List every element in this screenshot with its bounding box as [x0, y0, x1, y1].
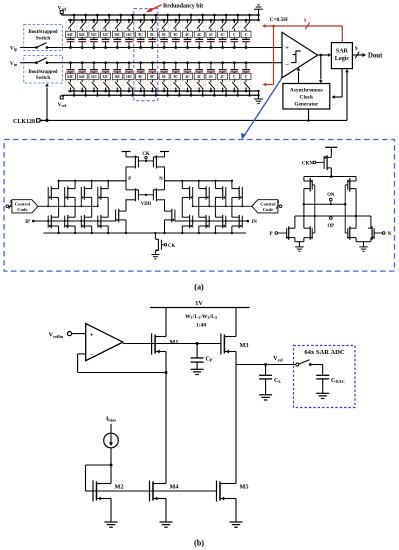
node OP: [295, 215, 371, 229]
capacitor CDAC: [316, 365, 345, 399]
capacitor C top cell 15 with switch: [229, 14, 239, 49]
wire preamp right top rail: [165, 180, 232, 182]
svg-text:IP: IP: [25, 220, 30, 225]
SAR Logic box U2: [331, 43, 352, 69]
control code tag left: [6, 199, 38, 213]
capacitor 8C bottom cell 7 with switch: [136, 61, 146, 96]
svg-text:2C: 2C: [220, 33, 225, 37]
wire M2 diode connection: [86, 465, 112, 491]
64x SAR ADC dashed box: [294, 346, 356, 408]
svg-text:C: C: [245, 75, 248, 79]
control code tag right: [252, 199, 282, 213]
wire bottom inner rail: [68, 90, 259, 92]
transistor preamp right bank column 1 top: [181, 180, 194, 218]
capacitor 2C bottom cell 14 with switch: [217, 61, 227, 96]
svg-text:BootStrapped: BootStrapped: [28, 30, 57, 35]
Asynchronous Clock Generator box U3: [283, 84, 330, 110]
wire preamp bottom rail: [44, 232, 247, 234]
transistor preamp right bank column 3 bottom: [214, 215, 227, 234]
capacitor 8C top cell 9 with switch: [159, 14, 169, 49]
transistor preamp right bank column 4 top: [231, 180, 244, 218]
node P: [126, 177, 131, 188]
svg-text:CDAC: CDAC: [331, 378, 345, 384]
wire comparator output to clock generator: [319, 55, 323, 83]
transistor preamp left bank column 2 top: [64, 180, 77, 218]
wire SAR logic to clock generator: [332, 69, 343, 99]
transistor M1 pmos: [152, 308, 179, 373]
svg-text:16C: 16C: [114, 33, 121, 37]
capacitor 2C bottom cell 13 with switch: [206, 61, 216, 96]
bootstrapped switch box 1: [24, 25, 63, 51]
svg-text:64C: 64C: [79, 33, 86, 37]
capacitor 8C bottom cell 9 with switch: [159, 61, 169, 96]
wire control bus left: [38, 205, 98, 207]
transistor M5 nmos: [217, 365, 249, 528]
wire op-amp output gate bus: [123, 343, 221, 345]
svg-text:VDD: VDD: [141, 202, 152, 207]
wire control bus right: [193, 205, 252, 207]
capacitor 64C bottom cell 1 with switch: [65, 61, 75, 96]
svg-text:Code: Code: [17, 207, 27, 212]
svg-text:Logic: Logic: [335, 56, 350, 62]
transistor preamp right bank column 1 bottom: [181, 215, 194, 234]
svg-text:N: N: [388, 232, 392, 237]
svg-text:32C: 32C: [91, 33, 98, 37]
node ON: [303, 193, 347, 205]
svg-text:CL: CL: [274, 378, 281, 384]
wire IN bus: [175, 220, 248, 222]
svg-text:4C: 4C: [185, 33, 190, 37]
svg-text:CLK128: CLK128: [13, 119, 35, 125]
svg-text:M2: M2: [115, 484, 124, 491]
redundancy bit label and arrow: [146, 4, 203, 13]
transistor VDD clamp pmos pair: [126, 181, 165, 211]
op-amp comparator U1: [282, 32, 318, 78]
wire 1V supply rail: [150, 300, 250, 308]
op-amp A1: [86, 324, 123, 361]
svg-text:CP: CP: [206, 357, 213, 363]
capacitor 32C bottom cell 4 with switch: [100, 61, 110, 96]
wire bottom Vref rail: [62, 94, 259, 96]
wire gate bus M2-M4-M5: [93, 490, 217, 492]
svg-text:32C: 32C: [102, 33, 109, 37]
wire preamp left top rail node P: [59, 180, 126, 182]
capacitor 8C bottom cell 8 with switch: [147, 61, 157, 96]
transistor preamp left bank column 2 bottom: [64, 215, 77, 234]
svg-text:M1: M1: [170, 339, 179, 346]
transistor latch pmos left: [304, 177, 313, 192]
ground bottom-right: [254, 90, 263, 104]
latch supply bar: [325, 147, 337, 157]
capacitor 16C top cell 5 with switch: [112, 14, 122, 49]
capacitor 32C bottom cell 3 with switch: [89, 61, 99, 96]
svg-text:OP: OP: [327, 224, 334, 229]
capacitor 8C top cell 10 with switch: [171, 14, 181, 49]
svg-text:Dout: Dout: [368, 52, 383, 59]
svg-text:8C: 8C: [174, 75, 179, 79]
wire IP bus: [33, 220, 115, 222]
svg-text:4C: 4C: [197, 75, 202, 79]
capacitor 4C bottom cell 12 with switch: [194, 61, 204, 96]
wire op-amp feedback: [78, 354, 168, 374]
transistor CK pmos pair top: [122, 152, 170, 181]
ground latch left: [295, 238, 304, 252]
wire latch cross-couple gate lines: [312, 185, 348, 233]
transistor input nmos N: [368, 216, 392, 240]
ground top-right flipped: [254, 5, 263, 21]
transistor M4 nmos: [150, 373, 179, 528]
svg-text:8C: 8C: [150, 75, 155, 79]
svg-text:Code: Code: [263, 207, 273, 212]
capacitor Cp: [191, 342, 213, 375]
transistor latch nmos right: [347, 226, 356, 240]
transistor preamp left bank column 1 bottom: [47, 215, 60, 234]
svg-text:32C: 32C: [102, 75, 109, 79]
svg-text:1V: 1V: [195, 300, 203, 307]
transistor CKN pmos: [302, 155, 331, 176]
svg-text:2C: 2C: [220, 75, 225, 79]
svg-text:64C: 64C: [79, 75, 86, 79]
svg-text:Clock: Clock: [300, 94, 313, 100]
comparator detail dashed box: [4, 140, 394, 272]
capacitor C top cell 16 with switch: [241, 14, 251, 49]
transistor M2 nmos: [93, 481, 123, 528]
svg-text:BootStrapped: BootStrapped: [28, 70, 57, 75]
transistor preamp left bank column 4 top: [97, 180, 110, 218]
svg-text:32C: 32C: [91, 75, 98, 79]
svg-text:8C: 8C: [162, 33, 167, 37]
transistor preamp left bank column 1 top: [47, 180, 60, 218]
svg-text:ON: ON: [327, 193, 335, 198]
current source Ibias: [104, 416, 119, 467]
svg-text:Vref: Vref: [58, 102, 67, 108]
capacitor 4C bottom cell 11 with switch: [182, 61, 192, 96]
svg-text:W1/L1:W3/L3: W1/L1:W3/L3: [185, 314, 217, 320]
redundancy bit dashed box: [134, 9, 158, 101]
svg-text:M4: M4: [170, 484, 179, 491]
label W1/L1:W3/L3 1:40: [185, 314, 217, 328]
svg-text:CK: CK: [168, 244, 175, 249]
capacitor 2C top cell 13 with switch: [206, 14, 216, 49]
node Dout output: [352, 47, 383, 59]
svg-text:16C: 16C: [114, 75, 121, 79]
svg-text:8C: 8C: [162, 75, 167, 79]
capacitor 8C bottom cell 10 with switch: [171, 61, 181, 96]
transistor preamp right bank column 2 top: [198, 180, 211, 218]
wire Vip with sampling switch: [20, 43, 282, 49]
svg-text:8C: 8C: [174, 33, 179, 37]
svg-text:64C: 64C: [67, 75, 74, 79]
capacitor 2C top cell 14 with switch: [217, 14, 227, 49]
svg-text:C: C: [233, 33, 236, 37]
capacitor 64C bottom cell 2 with switch: [77, 61, 87, 96]
transistor latch pmos right: [347, 177, 356, 192]
capacitor 32C top cell 4 with switch: [100, 14, 110, 49]
wire CLK up into SAR logic: [307, 69, 349, 122]
svg-text:16C: 16C: [126, 75, 133, 79]
svg-text:4C: 4C: [197, 33, 202, 37]
svg-text:Redundancy bit: Redundancy bit: [163, 4, 203, 10]
svg-text:Switch: Switch: [36, 37, 50, 42]
svg-text:P: P: [269, 232, 272, 237]
svg-text:(a): (a): [194, 282, 204, 291]
ground latch right: [356, 238, 371, 252]
transistor preamp left bank column 3 top: [80, 180, 93, 218]
node N: [159, 177, 164, 188]
transistor preamp right bank column 2 bottom: [198, 215, 211, 234]
wire top Vref rail: [62, 14, 259, 16]
capacitor 4C top cell 11 with switch: [182, 14, 192, 49]
blue callout arrow to detail box: [241, 78, 282, 139]
wire CLK to bootstrapped switches: [45, 83, 49, 122]
capacitor 64C top cell 2 with switch: [77, 14, 87, 49]
svg-text:SAR: SAR: [336, 49, 349, 55]
wire top second rail: [68, 19, 259, 21]
wire comparator output: [318, 53, 332, 57]
capacitor 16C bottom cell 6 with switch: [124, 61, 134, 96]
svg-text:−: −: [90, 352, 94, 359]
wire CLK128 main: [43, 119, 348, 121]
capacitor 64C top cell 1 with switch: [65, 14, 75, 49]
svg-text:M5: M5: [240, 484, 249, 491]
capacitor 8C top cell 7 with switch: [136, 14, 146, 49]
svg-text:64C: 64C: [67, 33, 74, 37]
capacitor C bottom cell 16 with switch: [241, 61, 251, 96]
node Vref bottom port: [58, 95, 67, 108]
svg-text:2C: 2C: [209, 33, 214, 37]
svg-text:(b): (b): [194, 539, 204, 548]
svg-text:Generator: Generator: [294, 101, 319, 107]
switch to SAR ADC: [296, 360, 323, 366]
svg-text:C=0.5fF: C=0.5fF: [270, 17, 289, 23]
svg-text:Vin: Vin: [10, 61, 18, 67]
bootstrapped switch box 2: [24, 56, 63, 84]
svg-text:CK: CK: [142, 152, 149, 157]
svg-text:+: +: [90, 331, 94, 338]
transistor tail nmos CK: [151, 232, 175, 259]
svg-text:IN: IN: [252, 220, 258, 225]
svg-text:C: C: [233, 75, 236, 79]
svg-text:8C: 8C: [138, 75, 143, 79]
svg-text:M3: M3: [240, 342, 249, 349]
node IN input: [247, 220, 258, 225]
transistor preamp left bank column 4 bottom: [97, 215, 110, 234]
transistor preamp right bank column 4 bottom: [231, 215, 244, 234]
svg-text:4C: 4C: [185, 75, 190, 79]
transistor preamp right bank column 3 top: [214, 180, 227, 218]
wire red control bus from SAR logic: [262, 19, 342, 86]
node Vref output: [236, 355, 296, 364]
wire clock generator to comparator clock: [297, 68, 301, 84]
capacitor 8C top cell 8 with switch: [147, 14, 157, 49]
svg-text:N: N: [159, 177, 163, 182]
node Vref top port: [58, 6, 67, 16]
svg-text:2C: 2C: [209, 75, 214, 79]
svg-text:Asynchronous: Asynchronous: [290, 87, 323, 93]
transistor preamp left bank column 3 bottom: [80, 215, 93, 234]
svg-text:Control: Control: [15, 201, 31, 206]
svg-text:+: +: [285, 44, 289, 51]
wire Vin with sampling switch: [20, 58, 282, 64]
capacitor C bottom cell 15 with switch: [229, 61, 239, 96]
capacitor CL: [259, 363, 281, 400]
svg-text:Vip: Vip: [10, 46, 18, 52]
wire latch output columns: [304, 189, 356, 229]
capacitor 16C bottom cell 5 with switch: [112, 61, 122, 96]
svg-text:CKN: CKN: [302, 162, 314, 167]
node Vrefin input: [49, 332, 86, 339]
svg-text:8C: 8C: [150, 33, 155, 37]
transistor preamp main input right M-in: [163, 199, 175, 234]
node CLK128 port: [13, 119, 43, 125]
svg-text:Control: Control: [260, 201, 276, 206]
svg-text:−: −: [285, 61, 289, 68]
wire latch internal rail: [304, 175, 356, 178]
svg-text:16C: 16C: [126, 33, 133, 37]
capacitor 32C top cell 3 with switch: [89, 14, 99, 49]
node IP input: [25, 220, 34, 225]
svg-text:8C: 8C: [138, 33, 143, 37]
svg-text:1:40: 1:40: [196, 322, 206, 328]
svg-text:64x SAR ADC: 64x SAR ADC: [304, 349, 345, 356]
svg-text:Switch: Switch: [36, 76, 50, 81]
transistor M3 pmos: [221, 308, 249, 365]
svg-text:C: C: [245, 33, 248, 37]
capacitor 4C top cell 12 with switch: [194, 14, 204, 49]
transistor preamp main input left M-ip: [116, 199, 128, 234]
transistor latch nmos left: [304, 226, 313, 240]
svg-text:P: P: [128, 177, 131, 182]
capacitor 16C top cell 6 with switch: [124, 14, 134, 49]
transistor input nmos P: [269, 216, 294, 240]
